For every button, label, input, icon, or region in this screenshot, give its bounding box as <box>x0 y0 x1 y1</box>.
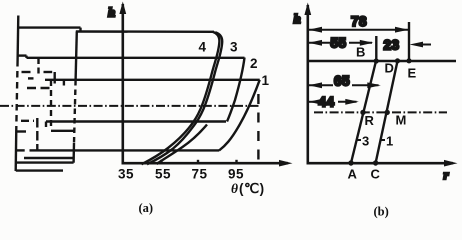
profile 1 top row <box>45 79 260 81</box>
figure (a) axis tick 55 <box>160 160 162 164</box>
profile 2 bottom row <box>46 120 226 122</box>
svg-text:1: 1 <box>386 134 393 149</box>
profile 1 bottom row main <box>40 149 219 151</box>
step row y131 from x51 <box>51 130 75 132</box>
step stub row y131.5 <box>16 130 26 132</box>
point D dot <box>395 58 400 63</box>
point R dot <box>360 110 365 115</box>
dimension 65 right arrow <box>367 82 381 88</box>
figure (a) theta axis arrow <box>279 160 293 167</box>
outer top edge <box>17 26 80 28</box>
svg-text:E: E <box>408 66 417 81</box>
top stub of profile 2 row <box>17 54 27 56</box>
svg-text:55: 55 <box>155 167 171 182</box>
dashed projection vertical x51 <box>50 80 52 129</box>
svg-text:1: 1 <box>262 73 270 88</box>
dimension 44 left tail <box>308 101 318 103</box>
dimension 44 line right part <box>338 101 357 103</box>
dimension 55 left arrow <box>309 40 323 46</box>
svg-text:65: 65 <box>334 74 350 89</box>
centre line of figure (b) <box>314 111 447 113</box>
svg-text:44: 44 <box>319 95 335 110</box>
svg-text:75: 75 <box>192 167 208 182</box>
figure (a) axis tick 75 <box>197 160 199 164</box>
top horizontal line through B D E <box>308 60 456 62</box>
tick below row1 <box>63 80 65 86</box>
curve 4 <box>142 32 220 165</box>
curve 3 <box>147 32 222 164</box>
profile 2 top row <box>27 57 245 59</box>
svg-text:M: M <box>396 113 407 128</box>
dash row y88 <box>27 87 51 89</box>
svg-text:C: C <box>371 167 381 182</box>
svg-text:78: 78 <box>351 14 367 29</box>
dashed step row y72 right dash <box>44 71 53 73</box>
profile 1 bottom row dash <box>30 149 41 151</box>
inner vertical wall lower solid <box>72 143 75 163</box>
dashed step row y72 left dash <box>22 71 31 73</box>
left outer vertical wall upper <box>16 16 19 61</box>
svg-text:h: h <box>294 11 301 26</box>
figure (a) axis tick 95 <box>235 160 237 164</box>
tick at left end of profile2 bottom row <box>45 122 47 128</box>
svg-text:4: 4 <box>199 40 207 55</box>
label 1 leader <box>381 139 385 141</box>
figure (a) h axis <box>122 4 125 165</box>
dimension 65 line right part <box>352 84 379 86</box>
dash row y120.8 <box>21 120 34 122</box>
centre line of figure (a) <box>0 105 259 107</box>
svg-text:(a): (a) <box>139 201 154 215</box>
svg-text:2: 2 <box>250 56 258 71</box>
dimension 44 right arrow <box>345 99 359 105</box>
svg-text:θ: θ <box>231 181 239 196</box>
dimension 44 left arrow <box>309 99 323 105</box>
svg-text:23: 23 <box>384 38 400 53</box>
inner top edge <box>76 30 214 33</box>
profile 2 descender <box>227 58 245 122</box>
svg-text:95: 95 <box>228 167 244 182</box>
dimension 55 line left part <box>308 42 330 44</box>
figure (b) h axis <box>306 5 309 165</box>
point E dot <box>406 58 411 63</box>
dashed projection of corner 1 <box>257 94 259 160</box>
svg-text:B: B <box>356 45 365 60</box>
point B extension tick <box>375 36 377 61</box>
svg-text:3: 3 <box>230 40 238 55</box>
dimension 65 line left part <box>308 84 333 86</box>
inner vertical wall middle dashed <box>74 80 76 143</box>
operating line 1 from C to D <box>376 61 398 163</box>
dimension 23 outside arrow <box>410 42 424 48</box>
figure (b) r axis arrow <box>444 160 458 167</box>
point C dot <box>373 160 378 165</box>
svg-text:D: D <box>385 61 394 76</box>
profile 1 descender <box>219 80 260 151</box>
bottom stub row y170.6 <box>16 169 63 171</box>
dashed projection vertical x37 <box>36 118 38 151</box>
outer top edge end tick <box>79 28 81 32</box>
profile 1 bottom row left solid <box>16 149 25 151</box>
svg-text:A: A <box>348 167 358 182</box>
dimension 23 outside arrow tail <box>421 44 431 46</box>
dimension 78 line <box>308 29 408 31</box>
svg-text:h: h <box>108 5 115 20</box>
projection tick below row2 <box>37 58 39 74</box>
svg-text:R: R <box>365 113 375 128</box>
dimension 55 line right part <box>349 42 372 44</box>
left outer vertical wall middle dashed <box>16 60 17 128</box>
inner vertical wall upper solid <box>76 32 77 81</box>
point A dot <box>348 160 353 165</box>
figure (a) theta axis <box>122 162 289 165</box>
dimension 78 right arrow <box>395 27 409 33</box>
small dash left of profile 1 top row <box>28 77 34 79</box>
dimension 65 left arrow <box>309 82 323 88</box>
dimension 55 right arrow <box>360 40 374 46</box>
vertical extension line at E <box>408 22 410 61</box>
dimension 78 left arrow <box>309 27 323 33</box>
figure (b) h axis arrow <box>304 3 311 16</box>
point B dot <box>374 58 379 63</box>
step tick at x54.7 <box>54 72 56 84</box>
svg-text:35: 35 <box>118 167 134 182</box>
label 3 leader <box>357 139 362 141</box>
figure (a) h axis arrow <box>119 2 126 15</box>
extra tail strand <box>157 125 208 165</box>
step row y158 <box>24 157 74 159</box>
point M dot <box>385 110 390 115</box>
figure (b) r axis <box>307 162 454 165</box>
stub step tick <box>25 56 27 58</box>
svg-text:(℃): (℃) <box>239 181 265 196</box>
svg-text:3: 3 <box>362 134 369 149</box>
svg-text:55: 55 <box>331 36 347 51</box>
step row y162.6 <box>16 161 74 163</box>
operating line 3 from A to B <box>351 61 376 163</box>
svg-text:(b): (b) <box>374 205 389 219</box>
left outer vertical wall lower <box>14 128 17 171</box>
